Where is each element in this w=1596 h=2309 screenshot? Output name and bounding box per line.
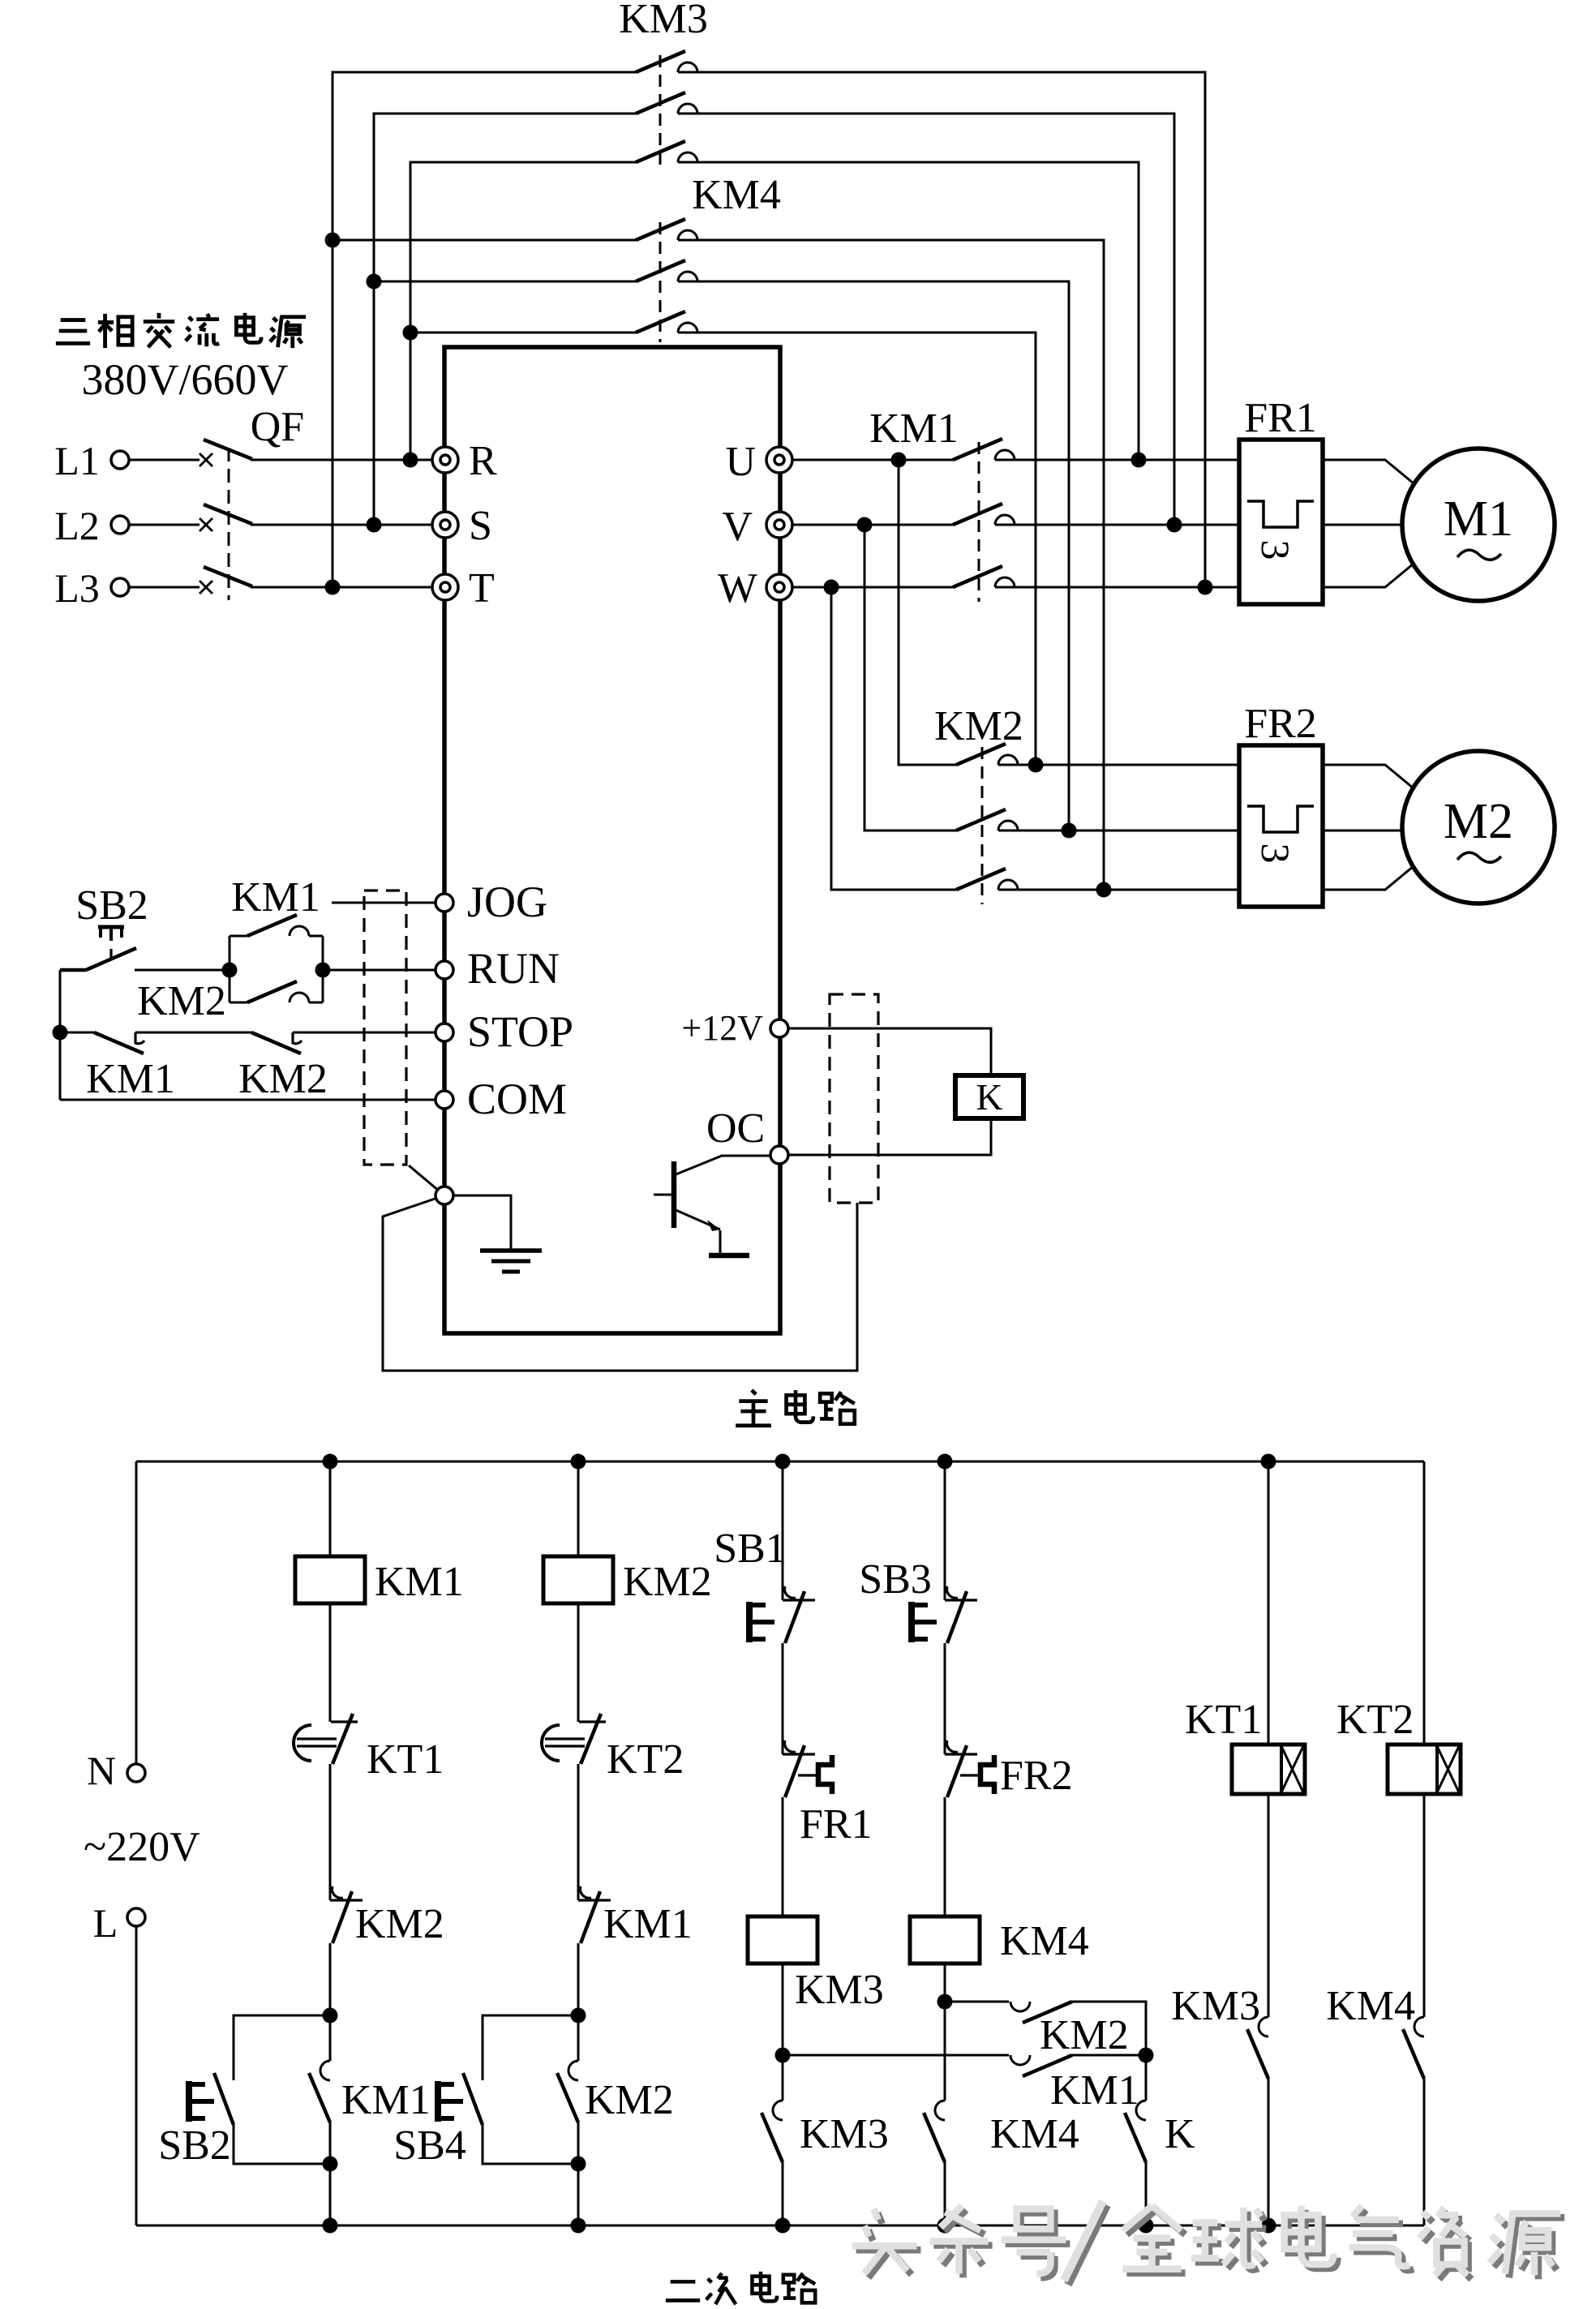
interlock line KM2 (upper) <box>945 2002 1146 2055</box>
wire JOG stub <box>332 902 435 904</box>
svg-text:KM2: KM2 <box>934 703 1023 749</box>
wire KM2 pole2 to FR2 <box>998 830 1239 832</box>
wire to RUN terminal <box>323 969 435 972</box>
svg-text:L3: L3 <box>54 565 100 611</box>
svg-text:U: U <box>725 439 756 485</box>
SB4 parallel path <box>483 2015 578 2164</box>
breaker QF pole 2 <box>199 504 252 531</box>
shield drain left diagonal <box>409 1165 444 1195</box>
breaker QF pole 3 <box>199 567 252 594</box>
branch3 wire FR1 to KM3 coil <box>782 1797 784 1916</box>
contactor KM1 pole 3 <box>953 566 1015 587</box>
svg-text:M1: M1 <box>1444 491 1513 547</box>
branch2 wire KM2 top <box>577 2015 580 2061</box>
svg-text:QF: QF <box>251 404 304 450</box>
branch1 wire to rail <box>329 2122 332 2225</box>
svg-text:JOG: JOG <box>467 878 547 926</box>
coil KT2 <box>1388 1745 1461 1794</box>
top rail <box>136 1461 1424 1463</box>
wire to STOP terminal <box>293 1032 435 1034</box>
wire W row to KM1 <box>792 586 953 589</box>
node W x1025 <box>824 580 839 595</box>
branch5 wire coil to contact <box>1268 1794 1270 2017</box>
terminal L <box>127 1908 145 1926</box>
wire riser x461 KM3 row2 feed <box>374 114 636 525</box>
wire L drop <box>135 1926 138 2225</box>
wire QF to S <box>251 524 432 526</box>
svg-text:FR1: FR1 <box>800 1801 873 1848</box>
wire KM4 pole1 to riser x1361 <box>678 240 1104 890</box>
wire KM4 row2 feed <box>374 281 636 283</box>
node KM4 row2 x461 <box>367 274 382 290</box>
KM3 gang link (dashed) <box>659 55 662 172</box>
contactor KM3 pole 3 <box>636 141 697 162</box>
phototransistor emitter with arrow <box>674 1209 720 1255</box>
KM4 gang link (dashed) <box>659 222 662 342</box>
button SB1 cap <box>749 1602 774 1642</box>
wire KM2 pole1 to FR2 <box>998 764 1239 766</box>
QF gang link (dashed) <box>228 448 230 600</box>
branch4 wire top <box>944 1461 946 1600</box>
svg-text:KM1: KM1 <box>869 406 959 452</box>
branch6 wire to rail <box>1423 2079 1426 2225</box>
NO contact KM2 (branch2) <box>557 2061 578 2122</box>
node RUN right <box>315 963 331 978</box>
wire KM4 row3 feed <box>410 332 636 334</box>
terminal N <box>127 1764 145 1782</box>
wire L1 to QF <box>129 459 199 461</box>
emitter ground bar <box>709 1253 749 1259</box>
node on T wire x410 <box>325 580 341 595</box>
branch3 wire SB1 to FR1 <box>782 1643 784 1754</box>
svg-text:OC: OC <box>706 1105 765 1152</box>
svg-text:+12V: +12V <box>681 1008 763 1048</box>
wire riser x506 KM3 row3 feed <box>410 162 636 460</box>
terminal E <box>435 1187 453 1204</box>
node b4 KM2 line <box>937 1994 953 2010</box>
button SB2 blade <box>214 2073 234 2125</box>
svg-text:KM3: KM3 <box>795 1967 884 2013</box>
svg-text:KM1: KM1 <box>1050 2067 1139 2114</box>
shield box left (dashed) <box>364 891 406 1165</box>
svg-text:FR1: FR1 <box>1244 395 1317 441</box>
timer contact KT2 <box>542 1714 606 1764</box>
coil KM2 <box>543 1556 613 1603</box>
shield drain to loop <box>383 1195 857 1371</box>
svg-text:KM2: KM2 <box>585 2077 674 2123</box>
wire K to OC <box>788 1118 991 1155</box>
K branch wire to rail <box>1145 2162 1148 2225</box>
branch4 wire to rail <box>944 2162 946 2225</box>
svg-text:SB3: SB3 <box>859 1556 932 1603</box>
branch2 wire coil to KT2 <box>577 1603 580 1722</box>
wire KM4 row1 feed <box>332 239 636 242</box>
node x1361 row3 <box>1096 882 1112 898</box>
svg-text:KM2: KM2 <box>355 1901 444 1947</box>
contactor KM4 pole 1 <box>636 219 697 240</box>
node b3 KM1 line <box>775 2048 791 2063</box>
control: SB2 blade <box>60 948 136 970</box>
branch1 wire coil to KT1 <box>329 1603 332 1722</box>
svg-text:S: S <box>469 503 492 549</box>
coil KM4 <box>910 1916 980 1964</box>
node V x1066 <box>857 517 873 533</box>
wire +12V to K <box>788 1028 991 1075</box>
timer contact KT1 <box>294 1714 358 1764</box>
terminal R <box>432 447 458 473</box>
control: SB2 left riser <box>59 970 62 1100</box>
contactor KM2 pole 2 <box>956 809 1018 830</box>
wire U branch down to KM2 row1 <box>899 460 956 765</box>
svg-text:FR2: FR2 <box>1000 1753 1073 1799</box>
svg-text:~220V: ~220V <box>84 1824 200 1870</box>
svg-text:RUN: RUN <box>467 944 560 993</box>
wire FR2 to M2 phase 3 <box>1323 866 1414 890</box>
ground symbol <box>480 1251 542 1272</box>
STOP row KM2 NC contact <box>251 1032 302 1054</box>
svg-text:V: V <box>722 504 753 550</box>
svg-text:KM1: KM1 <box>341 2077 431 2123</box>
node rail1 bottom <box>323 2218 338 2234</box>
breaker QF pole 1 <box>199 440 252 466</box>
node parallel2 top <box>571 2008 586 2024</box>
terminal T <box>432 574 458 600</box>
svg-text:R: R <box>469 438 497 484</box>
node rail b2 <box>571 1454 586 1470</box>
contactor KM2 pole 3 <box>956 869 1018 890</box>
svg-text:KM1: KM1 <box>86 1056 175 1102</box>
svg-text:KM3: KM3 <box>1171 1983 1260 2029</box>
control: SB2 link dash <box>109 949 112 959</box>
wire N drop <box>135 1461 138 1764</box>
branch3 wire top <box>782 1461 784 1600</box>
wire QF to T <box>251 586 432 589</box>
watermark shadow layer <box>856 2205 1565 2285</box>
tilde M2 <box>1457 852 1501 862</box>
svg-text:N: N <box>87 1748 116 1793</box>
STOP row KM1 NC contact <box>60 1032 144 1054</box>
wire KM3 pole3 to riser x1404 <box>678 162 1139 460</box>
tilde M1 <box>1457 550 1501 560</box>
NO contact KM1 (branch1) <box>309 2061 330 2122</box>
wire FR1 to M1 phase W <box>1323 564 1414 587</box>
wire L2 to QF <box>129 524 199 526</box>
coil KM3 <box>748 1916 817 1964</box>
branch2 wire top <box>577 1461 580 1556</box>
svg-text:KM2: KM2 <box>623 1559 712 1605</box>
terminal L3 <box>111 578 129 596</box>
button SB3 cap <box>912 1602 937 1642</box>
svg-text:FR2: FR2 <box>1244 701 1317 747</box>
terminal COM <box>435 1091 453 1109</box>
shield box right (dashed) <box>830 994 878 1203</box>
label 二次电路 <box>666 2272 815 2304</box>
label 三相交流电源 <box>56 313 306 348</box>
relay K box <box>955 1075 1023 1118</box>
wire COM row <box>60 1099 435 1101</box>
node U x1108 <box>891 453 907 468</box>
svg-text:KM4: KM4 <box>1000 1918 1089 1964</box>
branch1 wire top <box>329 1461 332 1556</box>
button SB4 blade <box>463 2073 483 2125</box>
node rail b5 <box>1261 1454 1276 1470</box>
wire between NC contacts <box>135 1032 251 1034</box>
NO contact KM3 (branch3) <box>762 2101 783 2162</box>
contactor KM3 pole 2 <box>636 92 697 114</box>
wire QF to R <box>251 459 432 461</box>
motor M1 <box>1402 448 1555 601</box>
node V x1448 <box>1167 517 1182 533</box>
svg-text:KM1: KM1 <box>231 874 320 921</box>
node RUN left <box>222 963 238 978</box>
coil KM1 <box>295 1556 365 1603</box>
branch1 wire to parallel <box>329 1943 332 2015</box>
KM2 gang link (dashed) <box>981 747 984 904</box>
branch4 wire coil to node <box>944 1964 946 2002</box>
node KM4 row3 x506 <box>403 325 418 341</box>
branch4 wire FR2 to KM4 coil <box>944 1797 946 1916</box>
terminal S <box>432 512 458 538</box>
node W x1486 <box>1198 580 1213 595</box>
svg-text:COM: COM <box>467 1075 567 1123</box>
terminal V <box>766 512 792 538</box>
branch1 wire KM1 top <box>329 2015 332 2061</box>
node KM4 row1 x410 <box>325 233 341 248</box>
wire L3 to QF <box>129 586 199 589</box>
svg-text:STOP: STOP <box>467 1007 573 1056</box>
svg-text:K: K <box>1165 2111 1195 2157</box>
contactor KM4 pole 2 <box>636 260 697 281</box>
phototransistor base stub <box>654 1194 674 1196</box>
svg-text:W: W <box>718 565 757 612</box>
wire KM4 pole3 to riser x1277 <box>678 333 1036 765</box>
VFD inverter box <box>444 347 780 1333</box>
NC contact KM2 (branch1) <box>330 1886 363 1943</box>
wire KM3 pole1 to riser x1486 <box>678 72 1205 587</box>
aux KM2 NO contact bottom <box>230 981 323 1002</box>
branch4 wire contact top <box>944 2002 946 2101</box>
node x1318 row2 <box>1062 823 1077 839</box>
thermal contact FR2 <box>945 1740 994 1797</box>
branch4 wire SB3 to FR2 <box>944 1643 946 1754</box>
svg-text:3: 3 <box>1253 540 1298 560</box>
branch3 wire to rail <box>782 2162 784 2225</box>
node rail4 bottom <box>937 2218 953 2234</box>
bottom rail <box>136 2225 1424 2227</box>
NO contact KM4 (branch4) <box>924 2101 945 2162</box>
branch6 wire coil to contact <box>1423 1794 1426 2017</box>
svg-text:KT2: KT2 <box>1336 1697 1414 1743</box>
branch6 wire top <box>1423 1461 1426 1745</box>
motor M2 <box>1402 751 1555 903</box>
interlock line KM1 (lower) <box>783 2055 1146 2076</box>
aux box left riser <box>229 936 231 1002</box>
svg-text:KM2: KM2 <box>238 1056 328 1102</box>
FR1 heater element <box>1247 501 1314 527</box>
terminal OC <box>770 1146 788 1164</box>
branch2 wire to rail <box>577 2122 580 2225</box>
svg-text:KT1: KT1 <box>367 1736 444 1783</box>
terminal JOG <box>435 894 453 912</box>
contactor KM1 pole 2 <box>953 504 1015 525</box>
svg-text:KM1: KM1 <box>603 1901 693 1947</box>
node on R wire x506 <box>403 453 418 468</box>
wire FR1 to M1 phase U <box>1323 460 1414 483</box>
phototransistor base bar <box>671 1161 677 1228</box>
branch3 wire contact top <box>782 2055 784 2101</box>
control: SB2 cap <box>98 927 124 941</box>
K branch wire top <box>1145 2055 1148 2101</box>
wire U row to KM1 <box>792 459 953 461</box>
thermal relay FR2 box <box>1239 745 1323 907</box>
wire FR2 to M2 phase 2 <box>1323 830 1402 832</box>
node rail3 bottom <box>775 2218 791 2234</box>
node parallel1 top <box>323 2008 338 2024</box>
wire V branch down to KM2 row2 <box>865 525 956 830</box>
svg-text:T: T <box>469 565 495 612</box>
node rail K bottom <box>1139 2218 1154 2234</box>
contactor KM1 pole 1 <box>953 439 1015 460</box>
node on S wire x461 <box>367 517 382 533</box>
SB2 parallel path <box>234 2015 330 2164</box>
terminal STOP <box>435 1024 453 1041</box>
terminal U <box>766 447 792 473</box>
node rail b1 <box>323 1454 338 1470</box>
wire KM1 pole1 to FR1 <box>995 459 1239 461</box>
svg-text:L2: L2 <box>54 503 100 548</box>
aux box right riser <box>322 936 324 1002</box>
NO contact KM3 (branch5) <box>1247 2017 1268 2079</box>
contactor KM2 pole 1 <box>956 744 1018 765</box>
svg-text:SB4: SB4 <box>393 2122 466 2169</box>
branch2 wire to parallel <box>577 1943 580 2015</box>
svg-text:KT2: KT2 <box>607 1736 684 1783</box>
wire KM2 pole3 to FR2 <box>998 889 1239 891</box>
button SB2 cap <box>189 2081 214 2122</box>
svg-text:3: 3 <box>1253 843 1298 864</box>
node parallel1 bottom <box>323 2157 338 2172</box>
branch1 wire KT1 to KM2 <box>329 1764 332 1900</box>
svg-text:SB1: SB1 <box>714 1526 787 1572</box>
terminal L2 <box>111 516 129 534</box>
contactor KM3 pole 1 <box>636 51 697 72</box>
branch3 wire coil to node <box>782 1964 784 2055</box>
node rail b3 <box>775 1454 791 1470</box>
wire riser x410 KM3 row1 feed <box>332 72 636 587</box>
svg-text:KM4: KM4 <box>1326 1983 1415 2029</box>
svg-text:L: L <box>93 1900 118 1946</box>
terminal RUN <box>435 961 453 979</box>
NO contact K <box>1125 2101 1146 2162</box>
branch5 wire to rail <box>1268 2079 1270 2225</box>
svg-text:M2: M2 <box>1444 794 1513 849</box>
node x1277 row1 <box>1028 758 1044 773</box>
node rail b4 <box>937 1454 953 1470</box>
thermal relay FR1 box <box>1239 440 1323 604</box>
branch2 wire KT2 to KM1 <box>577 1764 580 1900</box>
label 主电路 <box>736 1390 855 1426</box>
wire W branch down to KM2 row3 <box>831 587 956 890</box>
svg-text:KM2: KM2 <box>1040 2012 1129 2058</box>
wire KM4 pole2 to riser x1318 <box>678 281 1069 830</box>
node U x1404 <box>1131 453 1147 468</box>
button SB4 cap <box>438 2081 463 2122</box>
node rail2 bottom <box>571 2218 586 2234</box>
wire FR1 to M1 phase V <box>1323 524 1402 526</box>
branch5 wire top <box>1268 1461 1270 1745</box>
watermark face layer <box>852 2201 1561 2281</box>
node interlock right <box>1139 2048 1154 2063</box>
wire KM1 pole2 to FR1 <box>995 524 1239 526</box>
phototransistor collector <box>674 1156 770 1175</box>
wire KM3 pole2 to riser x1448 <box>678 114 1174 525</box>
wire KM1 pole3 to FR1 <box>995 586 1239 589</box>
svg-text:KM4: KM4 <box>692 172 781 218</box>
node STOP left <box>53 1025 68 1041</box>
svg-text:KT1: KT1 <box>1185 1697 1262 1743</box>
wire SB2 to RUN parallel <box>135 969 230 972</box>
wire V row to KM1 <box>792 524 953 526</box>
FR2 heater element <box>1247 806 1314 832</box>
NO contact KM4 (branch6) <box>1403 2017 1424 2079</box>
svg-text:KM3: KM3 <box>619 0 708 42</box>
svg-text:SB2: SB2 <box>158 2122 231 2169</box>
svg-text:380V/660V: 380V/660V <box>82 355 289 404</box>
thermal contact FR1 <box>783 1740 832 1797</box>
node parallel2 bottom <box>571 2157 586 2172</box>
button SB1 NC contact <box>783 1586 815 1643</box>
svg-text:KM4: KM4 <box>990 2111 1079 2157</box>
contactor KM4 pole 3 <box>636 311 697 333</box>
button SB3 NC contact <box>945 1586 977 1643</box>
aux KM1 NO contact top <box>230 915 323 936</box>
svg-text:SB2: SB2 <box>75 882 148 929</box>
terminal L1 <box>111 451 129 469</box>
KM1 gang link (dashed) <box>978 442 980 602</box>
svg-text:K: K <box>976 1076 1002 1118</box>
terminal +12V <box>770 1019 788 1037</box>
coil KT1 <box>1232 1745 1305 1794</box>
node rail5 bottom <box>1261 2218 1276 2234</box>
wire FR2 to M2 phase 1 <box>1323 765 1414 788</box>
wire E to ground <box>453 1195 511 1249</box>
svg-text:KM3: KM3 <box>800 2111 889 2157</box>
svg-text:KM2: KM2 <box>137 978 226 1024</box>
svg-text:L1: L1 <box>54 438 100 483</box>
NC contact KM1 (branch2) <box>578 1886 611 1943</box>
svg-text:KM1: KM1 <box>375 1559 464 1605</box>
terminal W <box>766 574 792 600</box>
